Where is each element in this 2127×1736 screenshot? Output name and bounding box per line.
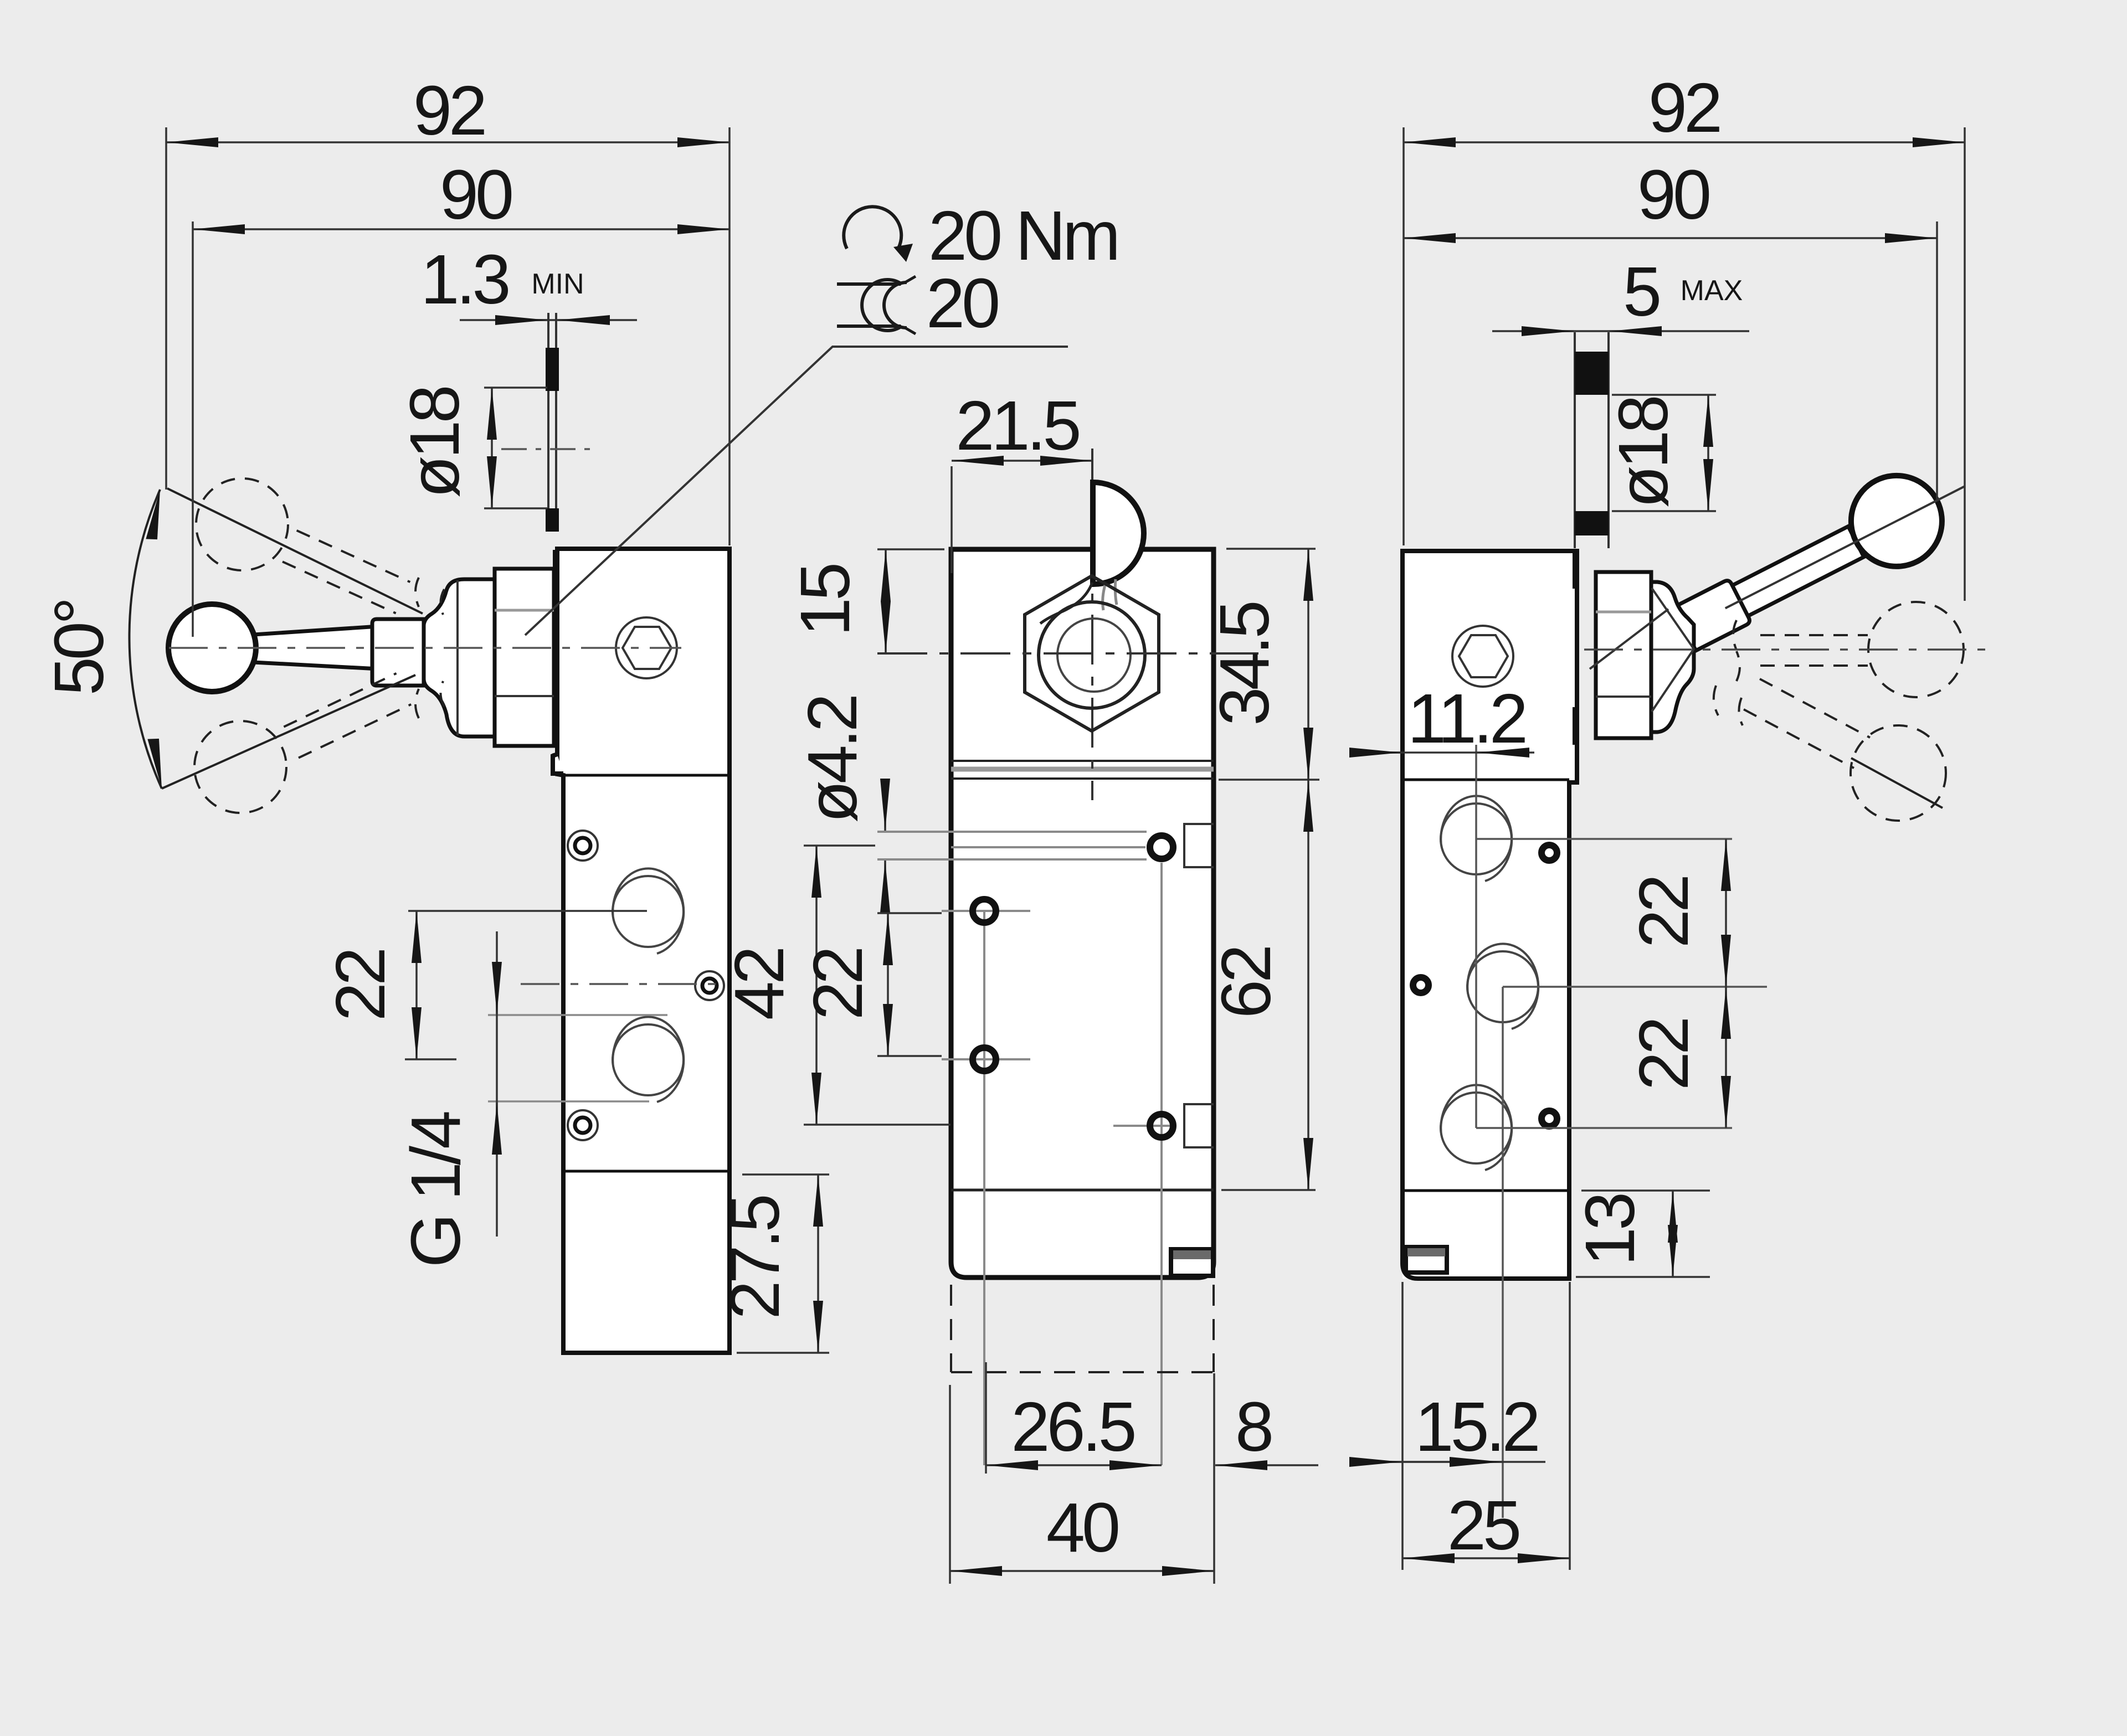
svg-text:8: 8 — [1235, 1388, 1271, 1466]
svg-text:40: 40 — [1046, 1488, 1118, 1567]
svg-text:21.5: 21.5 — [955, 387, 1078, 465]
svg-text:11.2: 11.2 — [1407, 679, 1525, 758]
svg-text:22: 22 — [1625, 877, 1703, 948]
svg-text:13: 13 — [1571, 1194, 1649, 1266]
svg-text:ø18: ø18 — [395, 388, 474, 498]
svg-text:50°: 50° — [40, 600, 118, 696]
svg-text:ø18: ø18 — [1604, 398, 1682, 508]
svg-text:22: 22 — [1625, 1019, 1703, 1090]
svg-text:26.5: 26.5 — [1011, 1388, 1134, 1466]
svg-text:ø4.2: ø4.2 — [793, 697, 871, 823]
svg-text:92: 92 — [413, 71, 484, 150]
svg-text:5: 5 — [1623, 253, 1659, 331]
svg-text:G 1/4: G 1/4 — [397, 1112, 475, 1268]
svg-text:20 Nm: 20 Nm — [928, 197, 1117, 275]
svg-text:42: 42 — [720, 949, 798, 1020]
svg-text:25: 25 — [1447, 1486, 1519, 1564]
svg-text:22: 22 — [799, 949, 877, 1020]
svg-text:90: 90 — [440, 156, 512, 234]
svg-text:20: 20 — [926, 264, 998, 342]
svg-text:62: 62 — [1207, 947, 1285, 1018]
svg-text:34.5: 34.5 — [1205, 602, 1283, 725]
svg-text:MIN: MIN — [531, 268, 584, 300]
svg-text:MAX: MAX — [1681, 275, 1743, 307]
svg-text:1.3: 1.3 — [420, 240, 508, 318]
svg-text:15.2: 15.2 — [1415, 1388, 1537, 1466]
svg-text:90: 90 — [1637, 156, 1709, 234]
svg-text:22: 22 — [321, 950, 399, 1021]
svg-text:27.5: 27.5 — [716, 1196, 794, 1319]
svg-text:15: 15 — [786, 565, 864, 636]
svg-text:92: 92 — [1648, 69, 1719, 147]
